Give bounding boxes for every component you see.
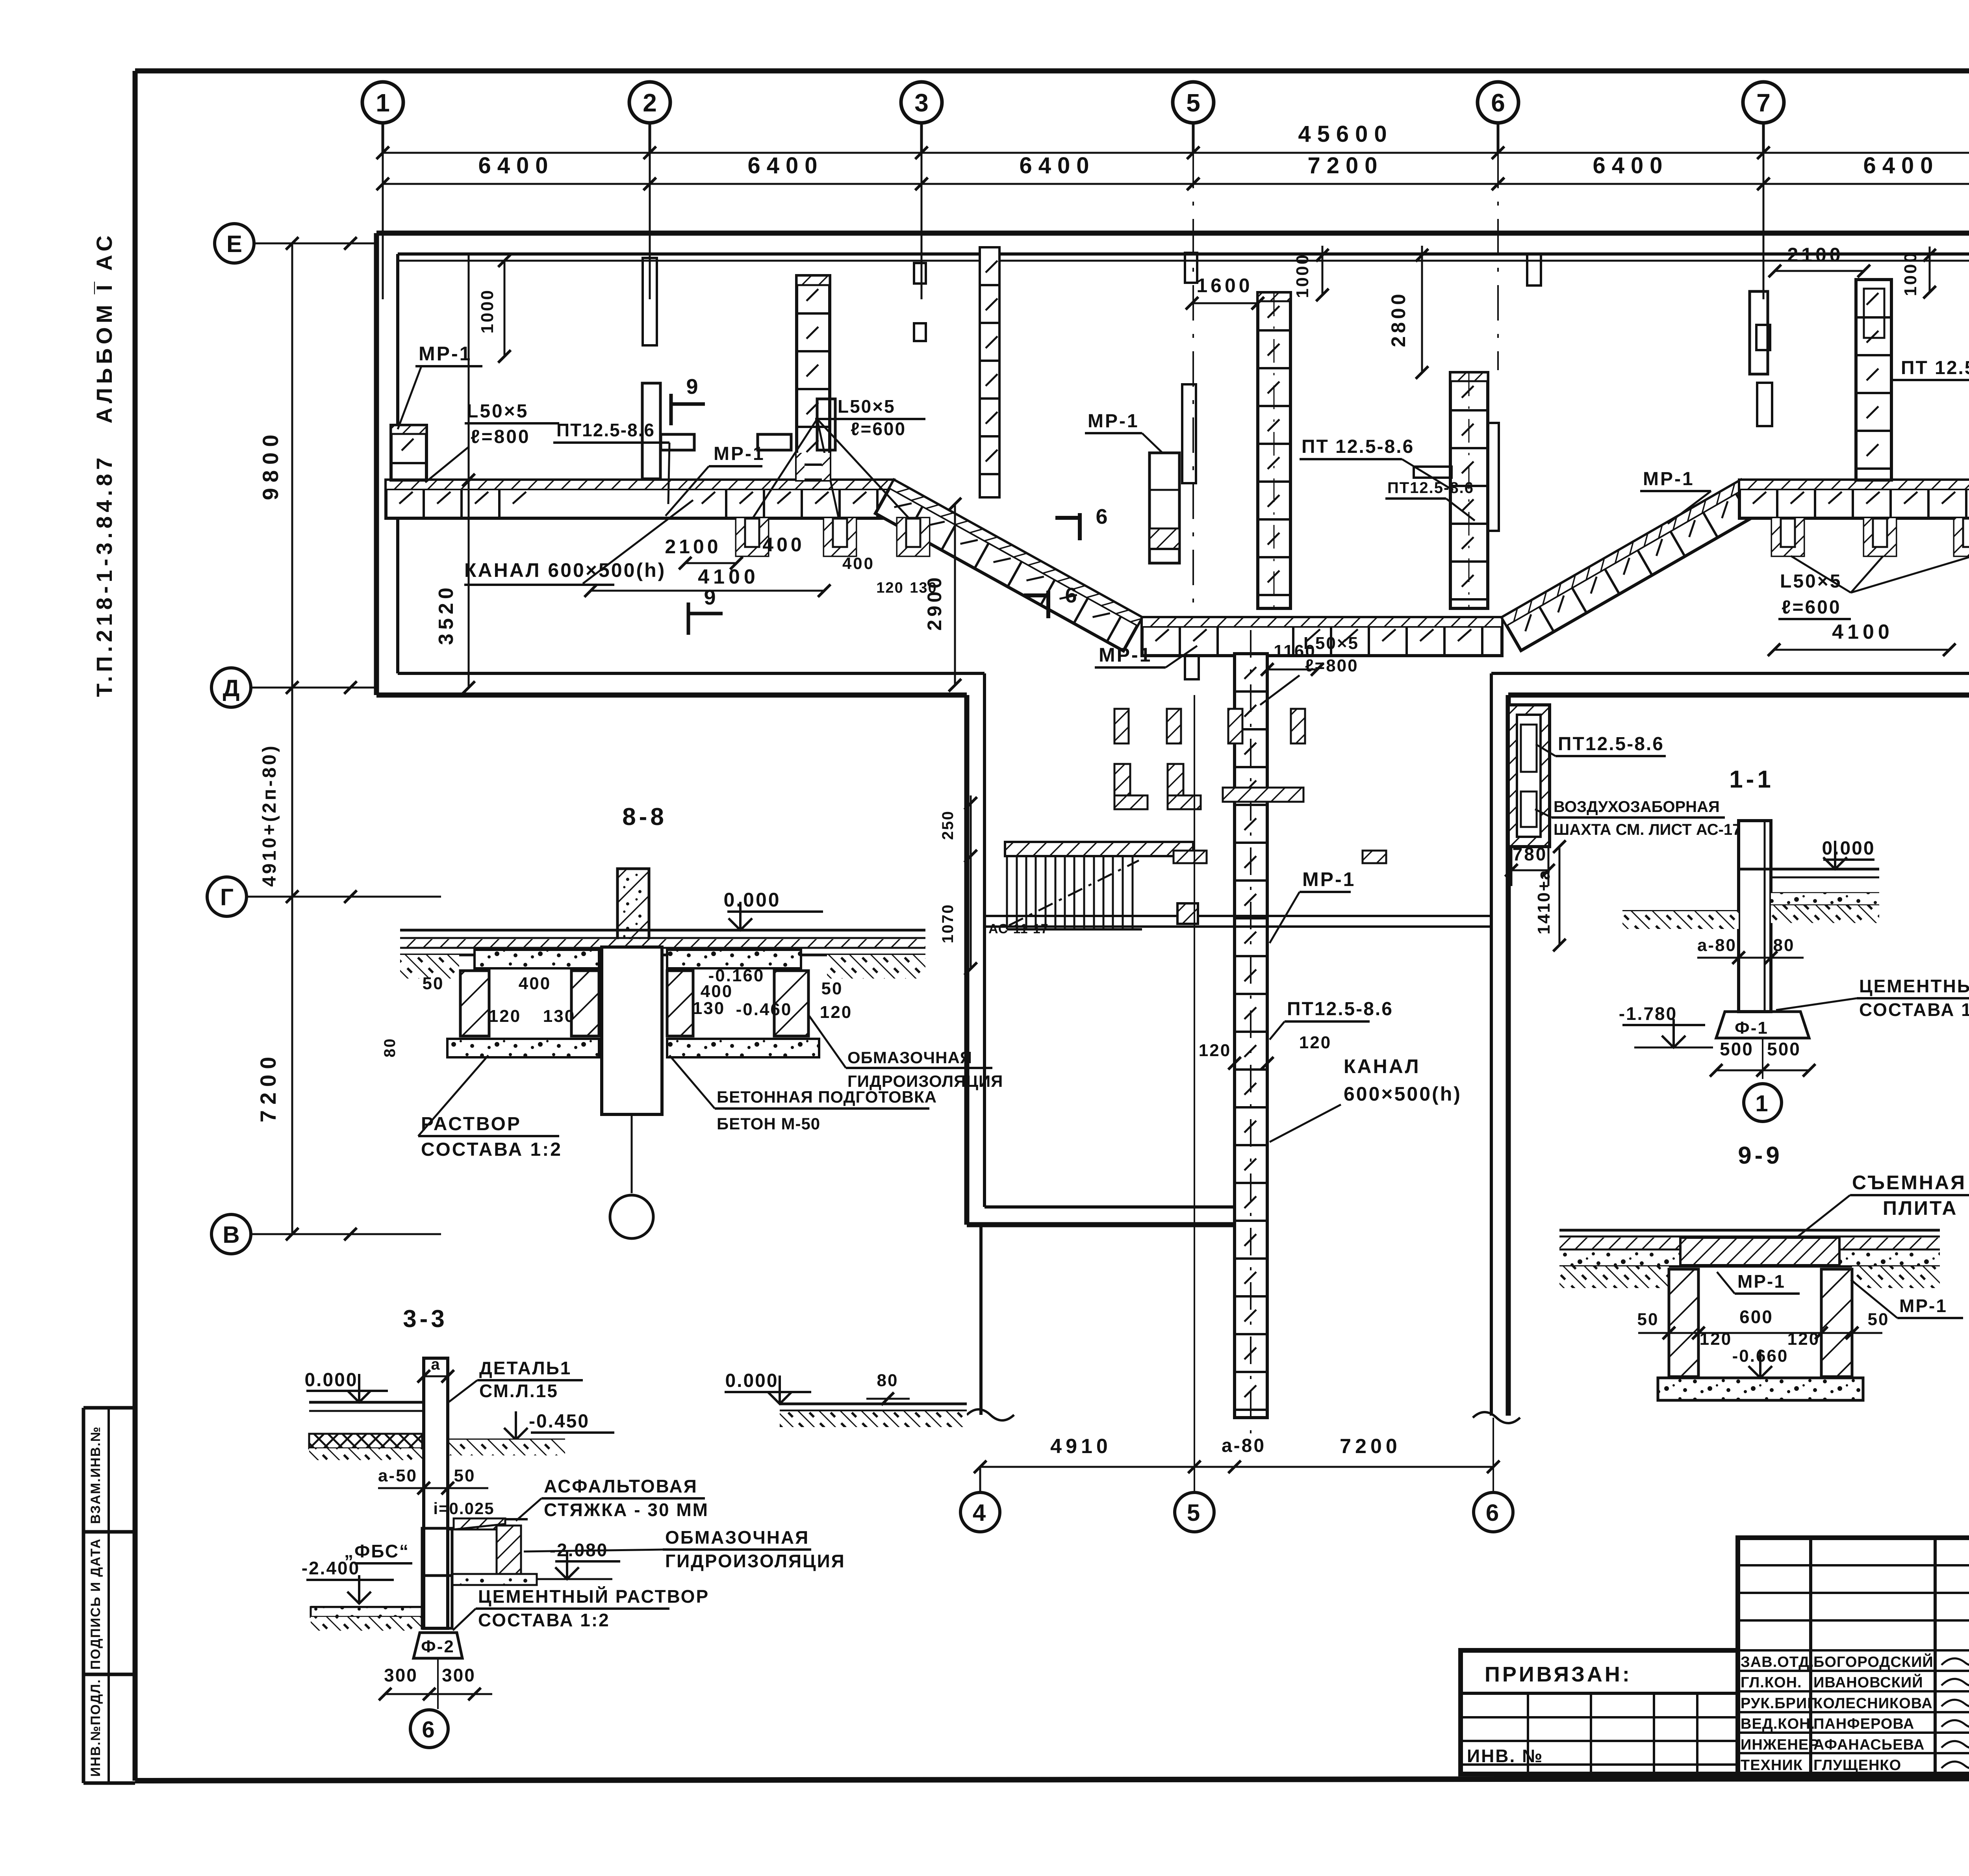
svg-text:9800: 9800 xyxy=(258,429,283,501)
stairs landing edge xyxy=(1005,842,1193,856)
svg-text:-2.400: -2.400 xyxy=(302,1558,360,1578)
8-8 grid circle xyxy=(610,1195,653,1238)
svg-text:0.000: 0.000 xyxy=(725,1370,778,1391)
8-8 central white column xyxy=(602,947,662,1114)
svg-text:БЕТОН М-50: БЕТОН М-50 xyxy=(717,1114,820,1133)
column before grid 6 xyxy=(1450,373,1488,608)
svg-text:3520: 3520 xyxy=(435,584,458,645)
svg-text:9-9: 9-9 xyxy=(1738,1142,1783,1169)
svg-text:ПАНФЕРОВА: ПАНФЕРОВА xyxy=(1813,1716,1914,1732)
svg-text:6: 6 xyxy=(1491,89,1505,117)
svg-text:400: 400 xyxy=(762,534,805,556)
dim 2900 vertical xyxy=(954,504,956,685)
9-9 bottom concrete xyxy=(1658,1378,1863,1400)
svg-text:МР-1: МР-1 xyxy=(1737,1271,1785,1292)
svg-text:45600: 45600 xyxy=(1298,121,1393,147)
svg-text:120: 120 xyxy=(1199,1041,1231,1060)
МР-1 plates row inside block Б xyxy=(984,915,1491,917)
hatched cap xyxy=(797,276,830,285)
svg-text:250: 250 xyxy=(939,810,957,840)
9-9 top slab xyxy=(1559,1229,1940,1232)
svg-text:КАНАЛ 600×500(h): КАНАЛ 600×500(h) xyxy=(464,559,666,581)
svg-text:ЦЕМЕНТНЫЙ РАСТВОР: ЦЕМЕНТНЫЙ РАСТВОР xyxy=(478,1586,709,1607)
svg-text:1000: 1000 xyxy=(478,289,497,334)
circle 6 (3-3) xyxy=(410,1710,448,1748)
white slab right of that column xyxy=(1488,423,1499,531)
channel band middle low xyxy=(1142,617,1502,656)
stairs steps xyxy=(1006,856,1008,929)
lower wall block xyxy=(422,1576,452,1628)
svg-text:1-1: 1-1 xyxy=(1729,766,1774,793)
svg-text:ДЕТАЛЬ1: ДЕТАЛЬ1 xyxy=(479,1358,571,1378)
svg-text:L50×5: L50×5 xyxy=(838,396,896,417)
svg-text:МР-1: МР-1 xyxy=(1643,469,1695,489)
signature table xyxy=(1809,1538,1812,1774)
svg-text:-0.460: -0.460 xyxy=(736,1000,792,1019)
dim 250/1070 stairs xyxy=(970,795,972,856)
svg-text:9: 9 xyxy=(686,375,700,399)
grid circle 7 xyxy=(1743,82,1784,123)
svg-text:Т.П.218-1-3.84.87 АЛЬБОМ I̅: Т.П.218-1-3.84.87 АЛЬБОМ I̅ АС xyxy=(92,232,117,697)
svg-text:L50×5: L50×5 xyxy=(467,401,528,422)
svg-text:АФАНАСЬЕВА: АФАНАСЬЕВА xyxy=(1813,1737,1925,1753)
svg-text:6: 6 xyxy=(422,1717,436,1743)
ПРИВЯЗАН box xyxy=(1461,1692,1738,1695)
svg-text:1000: 1000 xyxy=(1901,251,1920,296)
8-8 ground hatch left xyxy=(400,955,459,979)
diagonal channel band up-right xyxy=(1502,480,1760,651)
svg-text:КОЛЕСНИКОВА: КОЛЕСНИКОВА xyxy=(1813,1695,1933,1712)
svg-text:ПТ 12.5-8.6: ПТ 12.5-8.6 xyxy=(1302,436,1414,457)
dim 3520 xyxy=(468,254,470,688)
grid circle 1 xyxy=(362,82,403,123)
1-1 wall xyxy=(1739,821,1771,1012)
narrow slab column left-center xyxy=(980,247,999,497)
svg-text:СОСТАВА 1:2: СОСТАВА 1:2 xyxy=(478,1610,610,1630)
svg-text:СТЯЖКА - 30 ММ: СТЯЖКА - 30 ММ xyxy=(544,1500,709,1520)
svg-text:2900: 2900 xyxy=(923,574,946,630)
svg-text:МР-1: МР-1 xyxy=(1099,644,1152,666)
channel stubs below band xyxy=(736,518,768,556)
svg-text:ГИДРОИЗОЛЯЦИЯ: ГИДРОИЗОЛЯЦИЯ xyxy=(847,1072,1003,1090)
svg-text:ИНВ.№ПОДЛ.: ИНВ.№ПОДЛ. xyxy=(88,1679,103,1777)
vertical channel column A (left) xyxy=(797,276,830,480)
svg-text:СМ.Л.15: СМ.Л.15 xyxy=(479,1381,558,1401)
svg-text:4100: 4100 xyxy=(698,565,759,588)
block Б bottom wall xyxy=(967,1222,1235,1227)
row circle Е xyxy=(215,224,254,263)
svg-text:-0.450: -0.450 xyxy=(529,1411,590,1432)
svg-text:МР-1: МР-1 xyxy=(1302,868,1355,890)
plan outer wall left xyxy=(374,233,379,695)
svg-text:500: 500 xyxy=(1720,1039,1754,1059)
svg-text:2: 2 xyxy=(643,89,657,117)
vertical dimension chain left xyxy=(291,243,293,1234)
3-3 top dim a xyxy=(424,1375,448,1377)
svg-text:6: 6 xyxy=(1096,505,1109,528)
9-9 ground sides xyxy=(1559,1266,1669,1288)
signatures squiggles xyxy=(1941,1657,1969,1665)
svg-text:ПТ12.5-8.6: ПТ12.5-8.6 xyxy=(1558,734,1664,754)
svg-text:СЪЕМНАЯ Ж.Б.: СЪЕМНАЯ Ж.Б. xyxy=(1852,1172,1969,1194)
small ПТ piece near grid 6 xyxy=(1414,467,1452,478)
svg-text:4910: 4910 xyxy=(1050,1435,1112,1458)
svg-text:БЕТОННАЯ ПОДГОТОВКА: БЕТОННАЯ ПОДГОТОВКА xyxy=(717,1088,937,1106)
svg-text:2800: 2800 xyxy=(1387,291,1409,347)
svg-text:4: 4 xyxy=(973,1500,988,1526)
air intake shaft xyxy=(1508,705,1550,847)
svg-text:1160: 1160 xyxy=(1274,641,1316,661)
svg-text:780: 780 xyxy=(1513,844,1548,864)
svg-text:Г: Г xyxy=(220,884,234,910)
axis dashed line of vertical channel xyxy=(1250,630,1251,1433)
svg-text:ВЗАМ.ИНВ.№: ВЗАМ.ИНВ.№ xyxy=(88,1426,103,1524)
dim 2100 right top xyxy=(1775,270,1864,272)
svg-text:ПТ12.5-8.6: ПТ12.5-8.6 xyxy=(556,420,655,440)
svg-text:ЦЕМЕНТНЫЙ РАСТВОР: ЦЕМЕНТНЫЙ РАСТВОР xyxy=(1859,976,1969,996)
svg-text:1070: 1070 xyxy=(939,904,957,944)
svg-text:7200: 7200 xyxy=(1307,153,1383,178)
svg-text:ВОЗДУХОЗАБОРНАЯ: ВОЗДУХОЗАБОРНАЯ xyxy=(1554,798,1720,816)
horizontal channel band left xyxy=(386,480,894,518)
pilaster marks below top wall xyxy=(643,258,657,345)
plan inner wall bottom xyxy=(398,672,984,675)
svg-text:ℓ=800: ℓ=800 xyxy=(471,426,530,447)
svg-text:В: В xyxy=(222,1222,239,1248)
left stamp column boxes xyxy=(83,1406,135,1410)
8-8 upper hatched column xyxy=(617,869,649,947)
small stub at middle band bottom xyxy=(1185,656,1199,679)
svg-text:2100: 2100 xyxy=(1787,244,1843,266)
svg-text:50: 50 xyxy=(1868,1310,1889,1329)
svg-text:-2.080: -2.080 xyxy=(550,1540,608,1560)
svg-text:120: 120 xyxy=(489,1007,521,1026)
svg-text:50: 50 xyxy=(423,974,444,993)
svg-text:АСФАЛЬТОВАЯ: АСФАЛЬТОВАЯ xyxy=(544,1476,698,1496)
svg-text:ГИДРОИЗОЛЯЦИЯ: ГИДРОИЗОЛЯЦИЯ xyxy=(665,1551,845,1571)
svg-text:ИНВ. №: ИНВ. № xyxy=(1467,1746,1543,1766)
Ф-2 footing xyxy=(413,1633,462,1658)
svg-text:6400: 6400 xyxy=(1019,153,1095,178)
grid circle 5 xyxy=(1173,82,1214,123)
svg-text:-1.780: -1.780 xyxy=(1619,1003,1677,1024)
svg-text:4100: 4100 xyxy=(1832,621,1893,643)
section mark 6 lower xyxy=(1046,591,1050,618)
dim 1000 left xyxy=(504,261,506,356)
svg-text:ПТ 12.5-8.6: ПТ 12.5-8.6 xyxy=(1901,358,1969,378)
svg-text:0.000: 0.000 xyxy=(1822,838,1875,859)
svg-text:МР-1: МР-1 xyxy=(1088,411,1139,432)
svg-text:ИВАНОВСКИЙ: ИВАНОВСКИЙ xyxy=(1813,1673,1923,1691)
8-8 bottom concrete xyxy=(447,1039,599,1057)
svg-text:8-8: 8-8 xyxy=(622,803,667,830)
dim 780 xyxy=(1511,869,1548,871)
bottom dims of block Б xyxy=(980,1466,1493,1468)
left wall channel stub MP-1 xyxy=(391,425,426,480)
svg-text:120: 120 xyxy=(1299,1033,1331,1052)
svg-text:80: 80 xyxy=(877,1371,899,1390)
svg-text:КАНАЛ: КАНАЛ xyxy=(1344,1055,1420,1077)
svg-text:Д: Д xyxy=(223,675,240,701)
svg-text:ПТ12.5-8.6: ПТ12.5-8.6 xyxy=(1387,479,1474,497)
svg-text:а-80: а-80 xyxy=(1697,936,1737,955)
bay dimension line xyxy=(383,183,1969,185)
asphalt screed structure xyxy=(454,1518,505,1529)
svg-text:МР-1: МР-1 xyxy=(419,343,472,365)
small opening rectangles xyxy=(661,434,694,450)
8-8 floor slab lines xyxy=(400,929,925,932)
svg-text:7200: 7200 xyxy=(1340,1435,1401,1458)
svg-text:ПОДПИСЬ И ДАТА: ПОДПИСЬ И ДАТА xyxy=(88,1538,103,1670)
svg-text:7200: 7200 xyxy=(256,1051,280,1123)
tall slab rectangles (ПТ plates) xyxy=(642,383,660,479)
3-3 lower floor xyxy=(311,1606,422,1608)
dim 1000 center xyxy=(1322,246,1324,295)
svg-text:5: 5 xyxy=(1187,1500,1202,1526)
svg-text:1410+а: 1410+а xyxy=(1534,869,1554,934)
svg-text:ГЛ.КОН.: ГЛ.КОН. xyxy=(1741,1674,1802,1691)
svg-text:300: 300 xyxy=(384,1665,418,1685)
3-3 wall column xyxy=(424,1358,448,1628)
svg-text:0.000: 0.000 xyxy=(723,889,781,911)
ФБС block xyxy=(422,1528,452,1576)
dim 1160 xyxy=(1267,669,1317,671)
svg-text:ЗАВ.ОТД.: ЗАВ.ОТД. xyxy=(1741,1654,1814,1670)
block Б left wall xyxy=(964,695,970,1225)
МР-1 element center xyxy=(1150,453,1179,563)
section mark 6 upper xyxy=(1078,513,1082,540)
svg-text:ГЛУЩЕНКО: ГЛУЩЕНКО xyxy=(1813,1757,1901,1774)
svg-text:1000: 1000 xyxy=(1293,253,1312,298)
svg-text:300: 300 xyxy=(442,1665,476,1685)
svg-text:2100: 2100 xyxy=(665,536,721,558)
svg-text:7: 7 xyxy=(1756,89,1771,117)
block Б entrance pavement xyxy=(780,1403,967,1405)
svg-text:ИНЖЕНЕР: ИНЖЕНЕР xyxy=(1741,1737,1819,1753)
section mark 9 lower xyxy=(687,602,690,635)
1-1 ground left xyxy=(1622,910,1739,912)
vertical channel column D (right of grid 7) xyxy=(1856,280,1891,480)
8-8 wall blocks xyxy=(460,971,489,1036)
circle 1 (1-1) xyxy=(1744,1084,1782,1122)
upper interior hatched pieces xyxy=(1114,709,1129,743)
Ф-1 footing xyxy=(1716,1012,1809,1038)
svg-text:130: 130 xyxy=(543,1007,575,1026)
svg-text:3: 3 xyxy=(914,89,929,117)
grid circle 2 xyxy=(629,82,670,123)
svg-text:400: 400 xyxy=(519,974,551,993)
circle 5 xyxy=(1175,1492,1214,1532)
svg-text:50: 50 xyxy=(1637,1310,1659,1329)
svg-text:i=0.025: i=0.025 xyxy=(433,1499,494,1518)
grid axis line 5 xyxy=(1192,153,1194,614)
svg-text:80: 80 xyxy=(381,1038,399,1058)
vertical channel to block Б xyxy=(1235,654,1267,1418)
svg-text:МР-1: МР-1 xyxy=(1899,1296,1947,1316)
svg-text:5: 5 xyxy=(1186,89,1200,117)
svg-text:4910+(2п-80): 4910+(2п-80) xyxy=(259,743,280,887)
dim 1000 right xyxy=(1929,247,1931,292)
svg-text:ОБМАЗОЧНАЯ: ОБМАЗОЧНАЯ xyxy=(665,1527,809,1548)
svg-text:1: 1 xyxy=(376,89,390,117)
svg-text:9: 9 xyxy=(704,586,718,609)
МР-1 plate cover xyxy=(1680,1238,1839,1265)
column at 1600 from grid 5 xyxy=(1258,293,1290,608)
svg-text:ШАХТА СМ. ЛИСТ АС-17: ШАХТА СМ. ЛИСТ АС-17 xyxy=(1554,821,1741,838)
svg-text:3-3: 3-3 xyxy=(403,1305,448,1333)
horizontal channel band right xyxy=(1739,480,1969,518)
svg-text:6400: 6400 xyxy=(1593,153,1669,178)
svg-text:РУК.БРИГ: РУК.БРИГ xyxy=(1741,1695,1816,1712)
white slab beside center column xyxy=(1182,384,1196,483)
svg-text:120: 120 xyxy=(820,1003,852,1022)
grid circle 3 xyxy=(901,82,942,123)
svg-text:БОГОРОДСКИЙ: БОГОРОДСКИЙ xyxy=(1813,1653,1934,1670)
dim 2800 vertical center right xyxy=(1421,246,1423,373)
8-8 concrete strips xyxy=(475,950,599,968)
svg-text:400: 400 xyxy=(842,554,875,573)
svg-text:400: 400 xyxy=(701,982,733,1001)
plan inner wall left xyxy=(396,254,399,673)
overall dimension line 45600 xyxy=(383,152,1969,154)
svg-text:130: 130 xyxy=(693,999,725,1018)
svg-text:6400: 6400 xyxy=(478,153,554,178)
svg-text:6: 6 xyxy=(1486,1500,1501,1526)
svg-text:ℓ=600: ℓ=600 xyxy=(1782,597,1841,618)
9-9 trough walls xyxy=(1669,1269,1698,1377)
svg-text:ПЛИТА: ПЛИТА xyxy=(1883,1197,1958,1219)
diagonal channel band down-right xyxy=(875,480,1142,651)
svg-text:1: 1 xyxy=(1755,1091,1770,1116)
svg-text:1600: 1600 xyxy=(1196,274,1253,297)
svg-text:а-50: а-50 xyxy=(378,1466,417,1485)
section mark 9 upper xyxy=(669,394,673,425)
svg-text:ℓ=600: ℓ=600 xyxy=(851,419,906,439)
svg-text:ТЕХНИК: ТЕХНИК xyxy=(1741,1757,1803,1774)
block Б right wall xyxy=(1506,695,1511,1416)
concrete strip under asphalt xyxy=(452,1574,537,1585)
row circle Г xyxy=(207,877,247,916)
svg-text:600×500(h): 600×500(h) xyxy=(1344,1083,1462,1105)
plan outer wall bottom xyxy=(376,693,967,698)
svg-text:МР-1: МР-1 xyxy=(714,443,765,464)
svg-text:50: 50 xyxy=(821,979,843,998)
svg-text:0.000: 0.000 xyxy=(304,1370,358,1390)
svg-text:ОБМАЗОЧНАЯ: ОБМАЗОЧНАЯ xyxy=(847,1048,972,1067)
dim 1410+a vertical xyxy=(1559,847,1561,945)
title block xyxy=(1738,1538,1969,1774)
svg-text:СОСТАВА 1:2: СОСТАВА 1:2 xyxy=(421,1139,562,1160)
svg-text:ПТ12.5-8.6: ПТ12.5-8.6 xyxy=(1287,999,1393,1020)
plan outer wall top xyxy=(376,231,1969,236)
circle 4 xyxy=(960,1492,1000,1532)
svg-text:600: 600 xyxy=(1739,1307,1773,1327)
svg-text:АС-11-17: АС-11-17 xyxy=(988,921,1049,936)
dims 2100/400/4100 below band left xyxy=(685,562,736,564)
svg-text:Ф-2: Ф-2 xyxy=(421,1637,455,1656)
svg-text:а-80: а-80 xyxy=(1222,1435,1266,1456)
svg-text:ВЕД.КОН.: ВЕД.КОН. xyxy=(1741,1716,1815,1732)
1-1 floor right xyxy=(1771,868,1879,871)
dim 1600 center xyxy=(1192,302,1258,304)
svg-text:50: 50 xyxy=(454,1466,476,1485)
row circle В xyxy=(211,1214,251,1254)
svg-text:500: 500 xyxy=(1767,1039,1801,1059)
3-3 left floor slab xyxy=(309,1401,424,1404)
hatched bottom cell edges of column A xyxy=(797,453,805,480)
circle 6 bottom xyxy=(1474,1492,1513,1532)
svg-text:а: а xyxy=(431,1356,441,1373)
plan inner wall top xyxy=(398,252,1969,256)
svg-text:Ф-1: Ф-1 xyxy=(1735,1018,1769,1038)
svg-text:6: 6 xyxy=(1065,584,1079,607)
svg-text:СОСТАВА 1:2: СОСТАВА 1:2 xyxy=(1859,999,1969,1020)
svg-text:ПРИВЯЗАН:: ПРИВЯЗАН: xyxy=(1485,1663,1632,1686)
block Б lower-left edge xyxy=(979,1225,983,1415)
svg-text:6400: 6400 xyxy=(1863,153,1939,178)
stair diagonal xyxy=(1009,860,1139,925)
svg-text:6400: 6400 xyxy=(747,153,823,178)
grid circle 6 xyxy=(1478,82,1518,123)
sheet border frame xyxy=(135,69,1969,74)
row circle Д xyxy=(211,668,251,707)
svg-text:Е: Е xyxy=(226,231,242,257)
svg-text:120: 120 xyxy=(876,580,903,596)
lower corridor squiggle ends xyxy=(967,1409,1014,1420)
